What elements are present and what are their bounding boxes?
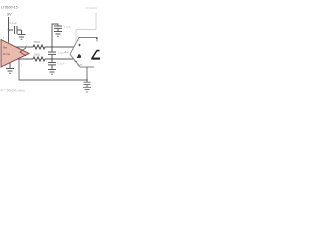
svg-text:5.6pF: 5.6pF — [58, 62, 65, 66]
svg-text:R = 50kΩ/fC(MHz): R = 50kΩ/fC(MHz) — [1, 89, 26, 93]
wire VCM net — [19, 59, 87, 81]
resistor R2 25 ohm — [33, 57, 45, 61]
node output corner — [96, 37, 98, 39]
wire upper to pentagon — [45, 46, 74, 48]
node supply junction — [8, 29, 10, 31]
wire top branch — [52, 24, 58, 47]
wire upper output — [16, 46, 33, 48]
wire VDD supply (faint) — [76, 13, 96, 43]
resistor R1 25 ohm — [33, 45, 45, 49]
node upper junction — [51, 46, 53, 48]
logo delta — [93, 50, 99, 57]
wire cap to ground — [17, 29, 22, 31]
ground bypass — [18, 30, 26, 39]
svg-text:LTC2249: LTC2249 — [86, 6, 98, 10]
svg-text:3V: 3V — [7, 12, 12, 17]
wire lower to pentagon — [45, 58, 74, 60]
ground VCM — [83, 85, 91, 92]
wire 3V rail — [8, 17, 10, 43]
op-amp U1 (pink filter block) — [1, 40, 29, 68]
pin - mark — [75, 61, 78, 63]
svg-text:25kΩ: 25kΩ — [34, 52, 41, 56]
capacitor C3 bottom — [51, 59, 53, 63]
svg-text:LT6600-15: LT6600-15 — [1, 6, 18, 10]
ADC U2 pentagon body — [70, 38, 97, 68]
logo mark — [77, 54, 81, 58]
ground top — [54, 28, 62, 36]
wire bypass branch — [9, 29, 14, 31]
wire lower output — [18, 58, 34, 60]
capacitor C2 mid — [51, 47, 53, 52]
svg-text:25kΩ: 25kΩ — [34, 40, 41, 44]
capacitor 0.1uF bypass — [15, 26, 18, 34]
svg-text:5.6pF: 5.6pF — [64, 25, 71, 29]
node VCM junction — [86, 79, 88, 81]
internal amp tip — [20, 48, 26, 56]
capacitor C4 VCM — [84, 80, 91, 85]
pin + mark — [78, 44, 81, 47]
node lower junction — [51, 58, 53, 60]
capacitor C1 top — [54, 26, 62, 28]
ground bottom chain — [48, 65, 56, 74]
ground amp — [6, 63, 14, 74]
svg-text:0.1μF: 0.1μF — [9, 21, 17, 25]
